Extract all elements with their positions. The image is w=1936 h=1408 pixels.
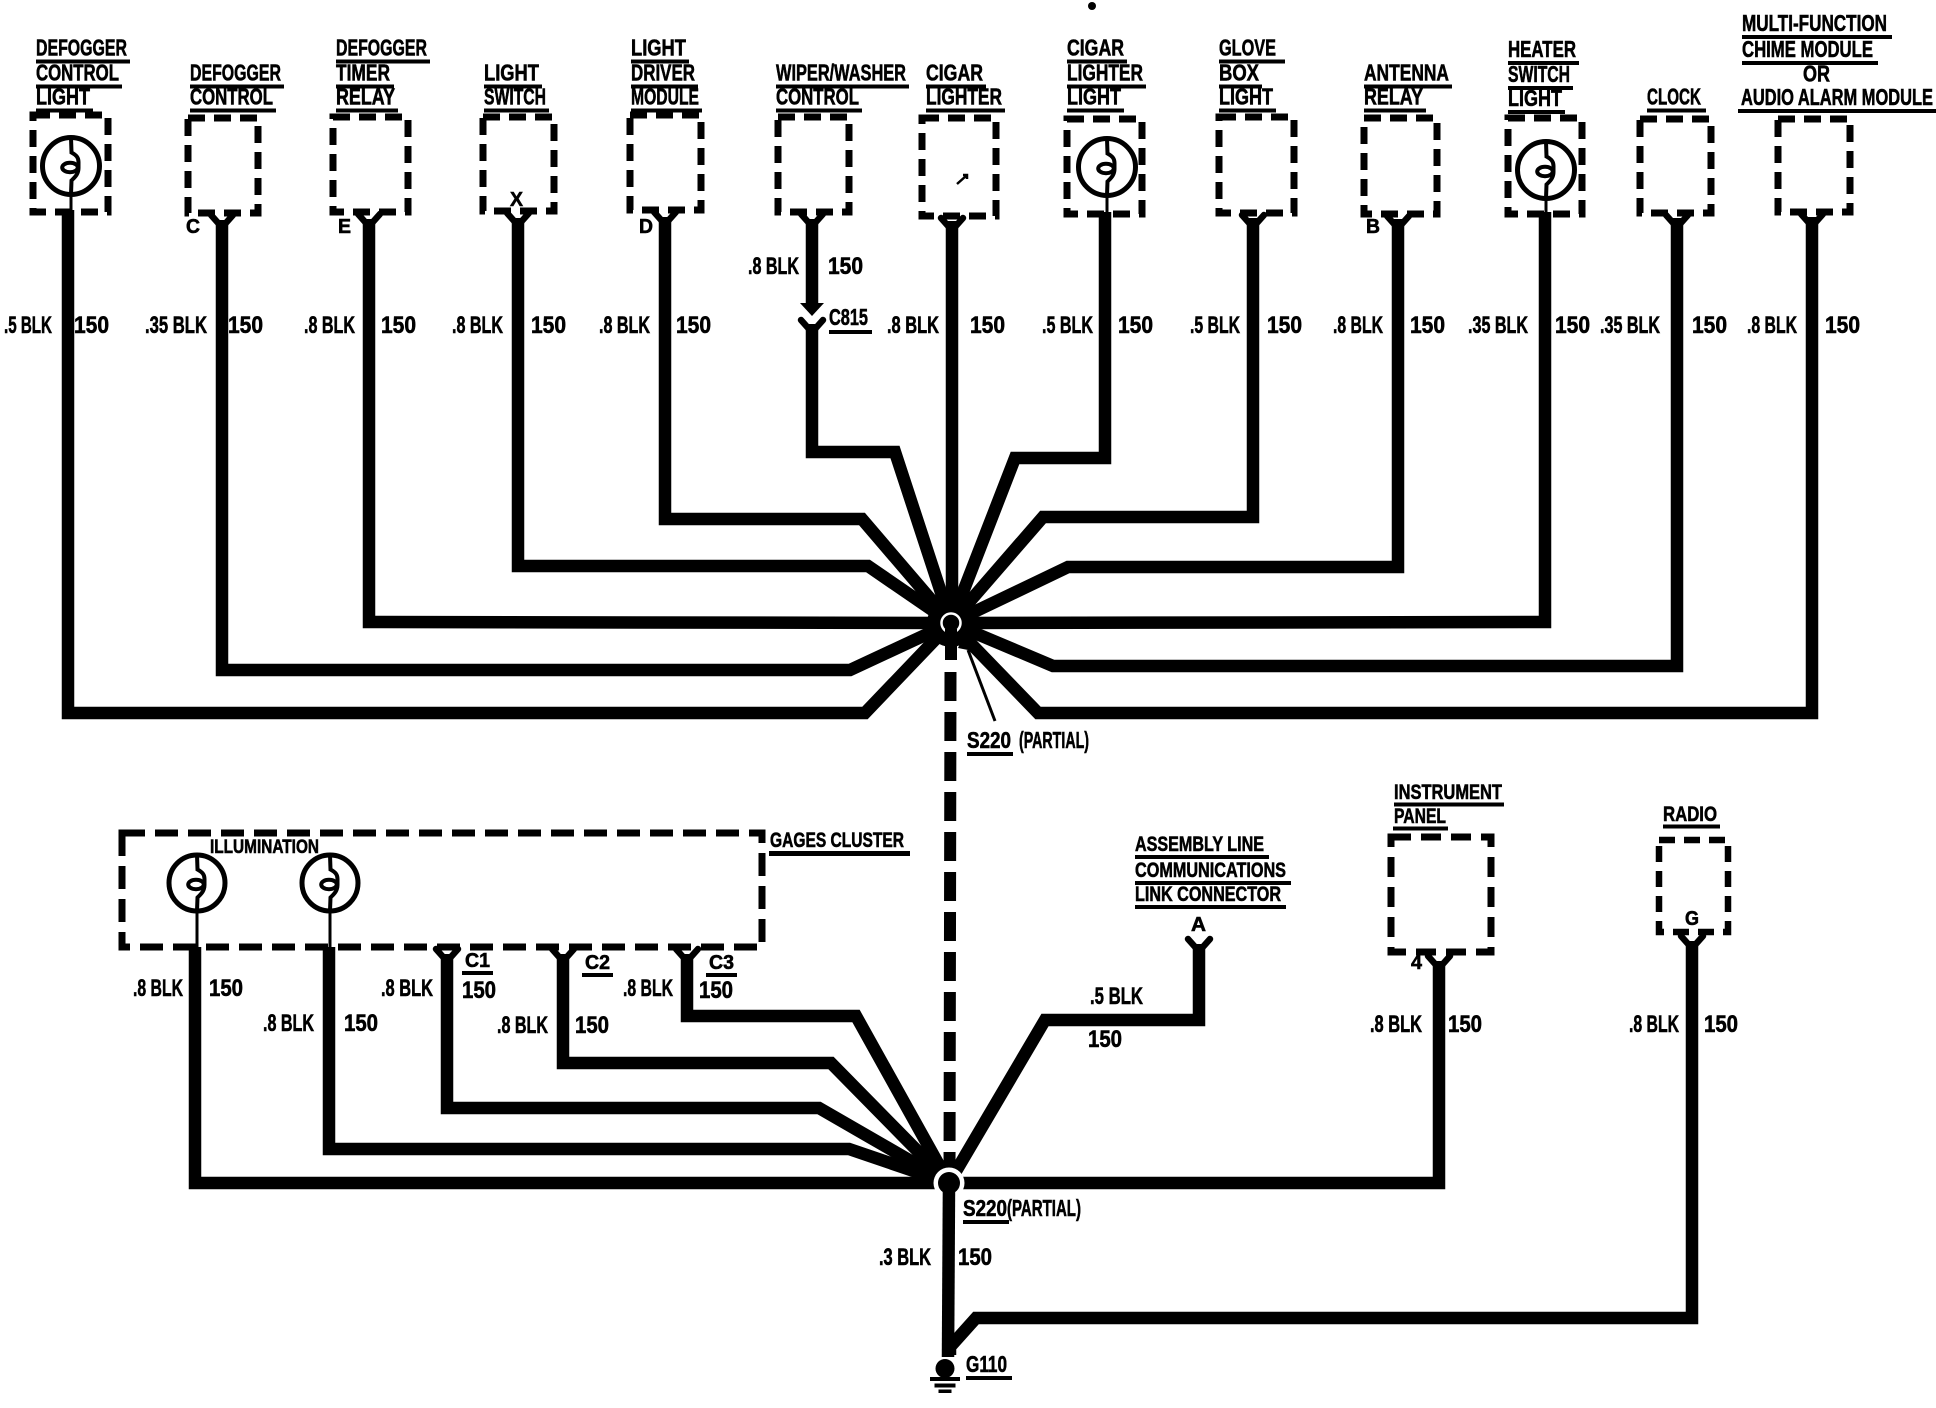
- svg-text:MODULE: MODULE: [631, 84, 699, 110]
- svg-text:.8 BLK: .8 BLK: [1333, 312, 1383, 339]
- value label wire 11: .35 BLK 150: [1468, 312, 1590, 339]
- svg-text:BOX: BOX: [1219, 60, 1260, 86]
- component: defogger control: [188, 60, 284, 214]
- component: clock: [1640, 84, 1711, 214]
- svg-text:.3 BLK: .3 BLK: [879, 1244, 931, 1271]
- svg-text:.8 BLK: .8 BLK: [133, 975, 183, 1002]
- value label .8 BLK 150 (C1 wire): [381, 975, 496, 1004]
- wire: light switch to splice S220 (.8 BLK 150): [518, 218, 951, 623]
- connector prong at assembly line connector pin A: [1188, 939, 1210, 948]
- svg-text:150: 150: [462, 977, 496, 1004]
- svg-text:SWITCH: SWITCH: [1508, 61, 1570, 87]
- svg-text:.8 BLK: .8 BLK: [497, 1012, 548, 1039]
- connector C815 symbol: [800, 303, 824, 329]
- svg-text:CONTROL: CONTROL: [190, 84, 273, 110]
- svg-text:CHIME MODULE: CHIME MODULE: [1742, 36, 1873, 62]
- wire: radio to ground G110 (.8 BLK 150): [950, 941, 1692, 1355]
- svg-text:LIGHT: LIGHT: [484, 60, 539, 86]
- svg-text:CONTROL: CONTROL: [776, 84, 859, 110]
- svg-text:CIGAR: CIGAR: [1067, 35, 1124, 61]
- label S220 (PARTIAL) upper with leader arrow: [958, 637, 1089, 756]
- wire: illumination bulb 1 to splice S220 (.8 BLK 150): [195, 947, 949, 1183]
- lamp symbol: gages cluster illumination bulb 1: [169, 855, 225, 947]
- svg-text:4: 4: [1411, 952, 1423, 974]
- value label wire 4: .8 BLK 150: [452, 312, 566, 339]
- svg-text:TIMER: TIMER: [336, 60, 390, 86]
- component: defogger timer relay: [333, 35, 430, 213]
- svg-text:COMMUNICATIONS: COMMUNICATIONS: [1135, 859, 1286, 882]
- wire: clock to splice S220 (.35 BLK 150): [951, 218, 1677, 666]
- wire: splice S220 to ground G110 (.3 BLK 150): [948, 1183, 949, 1357]
- svg-text:SWITCH: SWITCH: [484, 84, 546, 110]
- svg-text:LIGHT: LIGHT: [631, 35, 686, 61]
- svg-text:INSTRUMENT: INSTRUMENT: [1394, 781, 1502, 804]
- connector prong at chime module: [1801, 214, 1823, 223]
- component: antenna relay: [1364, 60, 1452, 215]
- wire: dashed continuation of circuit 150 between S220 splices: [945, 629, 957, 660]
- svg-text:.8 BLK: .8 BLK: [304, 312, 355, 339]
- svg-text:LIGHT: LIGHT: [1067, 84, 1121, 110]
- svg-text:150: 150: [958, 1244, 992, 1271]
- svg-text:ASSEMBLY LINE: ASSEMBLY LINE: [1135, 833, 1264, 856]
- svg-text:150: 150: [74, 312, 109, 339]
- svg-text:.5 BLK: .5 BLK: [1042, 312, 1093, 339]
- ground G110 symbol: [930, 1359, 960, 1393]
- value label wire 3: .8 BLK 150: [304, 312, 416, 339]
- wire: defogger control to splice S220 (.35 BLK 150): [222, 220, 951, 670]
- svg-text:G: G: [1685, 908, 1699, 930]
- wire: cigar lighter light to splice S220 (.5 BLK 150): [951, 212, 1105, 623]
- svg-text:ANTENNA: ANTENNA: [1364, 60, 1449, 86]
- component: assembly line communications link connector: [1135, 833, 1291, 909]
- svg-text:.5 BLK: .5 BLK: [4, 312, 52, 339]
- svg-text:S220: S220: [967, 727, 1011, 753]
- svg-text:DEFOGGER: DEFOGGER: [336, 35, 427, 61]
- value label wire 8: .5 BLK 150: [1042, 312, 1153, 339]
- svg-text:.5 BLK: .5 BLK: [1190, 312, 1240, 339]
- svg-text:.8 BLK: .8 BLK: [1747, 312, 1797, 339]
- svg-text:.8 BLK: .8 BLK: [887, 312, 939, 339]
- wire: cigar lighter to splice S220 (.8 BLK 150): [946, 221, 959, 623]
- svg-text:DRIVER: DRIVER: [631, 60, 695, 86]
- wire: gages cluster pin C3 to splice S220 (.8 BLK 150): [687, 954, 949, 1183]
- svg-text:GAGES CLUSTER: GAGES CLUSTER: [770, 829, 904, 852]
- svg-text:ILLUMINATION: ILLUMINATION: [210, 836, 319, 858]
- wire: assembly line connector to splice S220 (.5 BLK 150): [949, 944, 1199, 1183]
- value label .8 BLK 150 (C3 wire): [623, 975, 733, 1004]
- wire: antenna relay to splice S220 (.8 BLK 150): [951, 219, 1398, 623]
- value label .8 BLK 150 (instrument panel wire): [1370, 1011, 1482, 1038]
- value label .8 BLK 150 (bulb 2 wire): [263, 1010, 378, 1037]
- svg-text:150: 150: [1555, 312, 1590, 339]
- wire: gages cluster pin C1 to splice S220 (.8 BLK 150): [447, 954, 949, 1183]
- svg-text:.35 BLK: .35 BLK: [1600, 312, 1660, 339]
- value label .8 BLK 150 (radio wire): [1629, 1011, 1738, 1038]
- svg-text:.8 BLK: .8 BLK: [1629, 1011, 1679, 1038]
- pin label C3: [706, 952, 737, 977]
- svg-text:(PARTIAL): (PARTIAL): [1019, 727, 1089, 753]
- connector prong at wiper/washer control: [801, 214, 823, 223]
- svg-text:.35 BLK: .35 BLK: [145, 312, 207, 339]
- svg-text:RADIO: RADIO: [1663, 803, 1717, 826]
- svg-text:150: 150: [1118, 312, 1153, 339]
- label G110: [966, 1351, 1012, 1380]
- svg-text:150: 150: [531, 312, 566, 339]
- svg-text:150: 150: [699, 977, 733, 1004]
- component: light driver module: [630, 35, 702, 211]
- label C815: [829, 304, 872, 334]
- svg-text:150: 150: [209, 975, 243, 1002]
- lamp symbol: heater switch light bulb: [1518, 142, 1575, 215]
- value label wire 5: .8 BLK 150: [599, 312, 711, 339]
- wire: defogger timer relay to splice S220 (.8 BLK 150): [369, 219, 951, 623]
- svg-text:OR: OR: [1803, 61, 1830, 87]
- value label wire 10: .8 BLK 150: [1333, 312, 1445, 339]
- connector prong at light driver module: [654, 212, 676, 221]
- value label wire 13: .8 BLK 150: [1747, 312, 1860, 339]
- svg-text:S220: S220: [963, 1195, 1007, 1221]
- svg-text:LIGHTER: LIGHTER: [1067, 60, 1143, 86]
- svg-text:CLOCK: CLOCK: [1647, 84, 1701, 110]
- svg-text:150: 150: [575, 1012, 609, 1039]
- component: defogger control light (box with lamp): [33, 35, 130, 213]
- wire: heater switch light to splice S220 (.35 BLK 150): [951, 212, 1545, 623]
- svg-text:G110: G110: [966, 1351, 1007, 1377]
- splice S220 (lower, partial): [934, 1168, 965, 1199]
- svg-text:HEATER: HEATER: [1508, 36, 1576, 62]
- component: glove box light: [1219, 35, 1294, 214]
- wire: gages cluster pin C2 to splice S220 (.8 BLK 150): [563, 954, 949, 1183]
- svg-text:DEFOGGER: DEFOGGER: [36, 35, 127, 61]
- value label wire 9: .5 BLK 150: [1190, 312, 1302, 339]
- connector prong at antenna relay: [1387, 216, 1409, 225]
- wire: glove box light to splice S220 (.5 BLK 150): [951, 218, 1253, 623]
- connector prong at glove box light: [1242, 215, 1264, 224]
- svg-text:.8 BLK: .8 BLK: [1370, 1011, 1422, 1038]
- svg-text:150: 150: [1825, 312, 1860, 339]
- svg-text:LIGHT: LIGHT: [1219, 84, 1273, 110]
- connector prong C2 at gages cluster: [552, 949, 574, 958]
- svg-text:(PARTIAL): (PARTIAL): [1007, 1195, 1081, 1221]
- svg-text:LINK CONNECTOR: LINK CONNECTOR: [1135, 883, 1281, 906]
- value label wire 1: .5 BLK 150: [4, 312, 109, 339]
- svg-text:150: 150: [1410, 312, 1445, 339]
- svg-text:.8 BLK: .8 BLK: [599, 312, 650, 339]
- svg-text:150: 150: [344, 1010, 378, 1037]
- connector prong at instrument panel pin 4: [1428, 956, 1450, 965]
- svg-text:C2: C2: [585, 952, 610, 974]
- svg-text:AUDIO ALARM MODULE: AUDIO ALARM MODULE: [1741, 84, 1933, 110]
- svg-text:C: C: [186, 216, 200, 238]
- component: wiper/washer control: [776, 60, 909, 213]
- pin label C2: [582, 952, 613, 977]
- connector prong at radio pin G: [1681, 936, 1703, 945]
- label S220(PARTIAL) lower: [963, 1195, 1081, 1224]
- svg-text:LIGHTER: LIGHTER: [926, 84, 1002, 110]
- connector prong C3 at gages cluster: [676, 949, 698, 958]
- svg-text:C815: C815: [829, 304, 868, 330]
- lamp symbol: gages cluster illumination bulb 2: [302, 855, 358, 947]
- svg-text:.8 BLK: .8 BLK: [748, 253, 799, 280]
- value label .5 BLK 150 (assembly line connector wire): [1088, 983, 1143, 1053]
- svg-text:150: 150: [1448, 1011, 1482, 1038]
- value label .8 BLK 150 (bulb 1 wire): [133, 975, 243, 1002]
- wire: wiper/washer control to connector C815 (.8 BLK 150): [806, 219, 819, 304]
- svg-text:CIGAR: CIGAR: [926, 60, 983, 86]
- value label wire 6: .8 BLK 150: [748, 253, 863, 280]
- connector prong C1 at gages cluster: [436, 949, 458, 958]
- svg-text:DEFOGGER: DEFOGGER: [190, 60, 281, 86]
- component: gages cluster: [122, 833, 762, 947]
- svg-text:.8 BLK: .8 BLK: [263, 1010, 314, 1037]
- svg-text:150: 150: [828, 253, 863, 280]
- connector prong at clock: [1666, 215, 1688, 224]
- splice S220 (upper, partial): [927, 599, 975, 647]
- svg-text:CONTROL: CONTROL: [36, 60, 119, 86]
- component: cigar lighter light: [1067, 35, 1146, 215]
- value label wire 7: .8 BLK 150: [887, 312, 1005, 339]
- svg-text:150: 150: [381, 312, 416, 339]
- svg-text:D: D: [639, 216, 653, 238]
- component: heater switch light: [1508, 36, 1582, 214]
- svg-text:.35 BLK: .35 BLK: [1468, 312, 1528, 339]
- connector prong at defogger control: [211, 215, 233, 224]
- wire: chime/audio module to splice S220 (.8 BLK 150): [951, 217, 1812, 713]
- svg-text:LIGHT: LIGHT: [36, 84, 90, 110]
- svg-text:MULTI-FUNCTION: MULTI-FUNCTION: [1742, 10, 1887, 36]
- label GAGES CLUSTER: [769, 829, 910, 856]
- svg-text:GLOVE: GLOVE: [1219, 35, 1276, 61]
- value label .3 BLK 150 (ground wire): [879, 1244, 992, 1271]
- wire: light driver module to splice S220 (.8 BLK 150): [665, 217, 951, 623]
- svg-text:.5 BLK: .5 BLK: [1090, 983, 1143, 1010]
- svg-text:C3: C3: [709, 952, 734, 974]
- wire: defogger control light to splice S220 (.5 BLK 150): [68, 210, 951, 713]
- lamp symbol: cigar lighter light bulb: [1079, 139, 1136, 215]
- svg-text:A: A: [1191, 914, 1206, 936]
- component: radio: [1659, 803, 1728, 932]
- lamp symbol: defogger control light bulb: [43, 138, 100, 213]
- wire: illumination bulb 2 to splice S220 (.8 BLK 150): [329, 947, 949, 1183]
- svg-text:E: E: [338, 216, 351, 238]
- svg-text:.8 BLK: .8 BLK: [381, 975, 433, 1002]
- connector prong at light switch: [507, 213, 529, 222]
- wire: instrument panel to splice S220 (.8 BLK 150): [949, 961, 1439, 1183]
- svg-text:150: 150: [970, 312, 1005, 339]
- svg-text:150: 150: [228, 312, 263, 339]
- svg-text:RELAY: RELAY: [1364, 84, 1423, 110]
- value label wire 12: .35 BLK 150: [1600, 312, 1727, 339]
- svg-text:150: 150: [1704, 1011, 1738, 1038]
- component: instrument panel: [1391, 781, 1504, 952]
- svg-text:C1: C1: [465, 950, 490, 972]
- value label wire 2: .35 BLK 150: [145, 312, 263, 339]
- component: cigar lighter: [922, 60, 1005, 217]
- scan artifact dot: [1088, 2, 1096, 10]
- svg-text:150: 150: [1692, 312, 1727, 339]
- svg-text:LIGHT: LIGHT: [1508, 85, 1562, 111]
- svg-text:.8 BLK: .8 BLK: [623, 975, 673, 1002]
- value label .8 BLK 150 (C2 wire): [497, 1012, 609, 1039]
- svg-text:150: 150: [676, 312, 711, 339]
- svg-text:PANEL: PANEL: [1394, 805, 1446, 828]
- svg-text:B: B: [1366, 216, 1380, 238]
- svg-text:X: X: [510, 189, 524, 211]
- connector prong at defogger timer relay: [358, 214, 380, 223]
- connector prong at cigar lighter: [941, 218, 963, 227]
- pin label C1: [462, 950, 493, 975]
- svg-text:RELAY: RELAY: [336, 84, 395, 110]
- component: multi-function chime module / audio alarm module: [1738, 10, 1936, 212]
- svg-text:WIPER/WASHER: WIPER/WASHER: [776, 60, 906, 86]
- svg-text:.8 BLK: .8 BLK: [452, 312, 503, 339]
- svg-text:150: 150: [1088, 1026, 1122, 1053]
- svg-text:150: 150: [1267, 312, 1302, 339]
- wire: connector C815 to splice S220: [812, 324, 951, 623]
- component: light switch: [483, 60, 554, 212]
